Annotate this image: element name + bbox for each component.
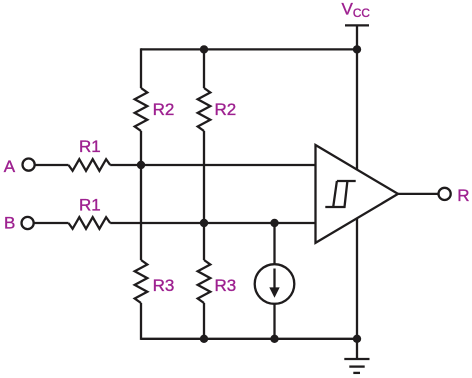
svg-text:R2: R2 [215, 100, 237, 119]
svg-text:R: R [457, 186, 469, 205]
svg-text:R3: R3 [153, 276, 175, 295]
svg-text:VCC: VCC [342, 0, 371, 20]
svg-text:R1: R1 [79, 196, 101, 215]
svg-text:R3: R3 [215, 276, 237, 295]
svg-text:R1: R1 [79, 137, 101, 156]
svg-text:A: A [4, 157, 16, 176]
svg-text:B: B [4, 214, 15, 233]
svg-text:R2: R2 [153, 100, 175, 119]
